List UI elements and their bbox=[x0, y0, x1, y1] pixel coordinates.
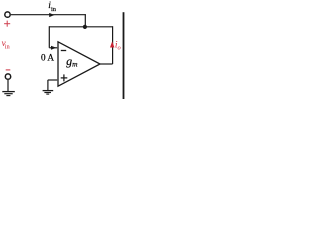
ground (input side) bbox=[2, 91, 15, 93]
polarity plus (red) bbox=[4, 23, 10, 25]
svg-text:io: io bbox=[115, 41, 121, 52]
current arrow 0 A bbox=[51, 46, 56, 50]
wire terminal to ground bbox=[7, 80, 9, 91]
node junction dot bbox=[83, 25, 87, 29]
wire vertical down to inverting input bbox=[48, 26, 50, 48]
input terminal (bottom) bbox=[5, 74, 10, 79]
wire down to ground (op-amp) bbox=[47, 80, 49, 90]
wire inverting input bbox=[49, 47, 57, 49]
svg-text:vin: vin bbox=[2, 38, 11, 51]
wire cropped element right edge bbox=[123, 12, 125, 99]
svg-text:0 A: 0 A bbox=[41, 52, 54, 62]
wire noninverting input bbox=[48, 79, 57, 81]
wire middle horizontal bbox=[49, 26, 112, 28]
polarity minus (red) bbox=[6, 69, 11, 71]
wire output vertical up bbox=[112, 26, 114, 64]
op-amp U1 bbox=[58, 42, 100, 86]
wire output horizontal bbox=[100, 63, 113, 65]
wire top horizontal bbox=[11, 14, 86, 16]
current arrow i_in bbox=[49, 13, 54, 17]
op-amp minus mark bbox=[61, 50, 66, 52]
ground (op-amp side) bbox=[43, 90, 54, 92]
wire vertical from top wire to junction bbox=[84, 14, 86, 27]
current arrow i_o (red) bbox=[110, 41, 114, 47]
input terminal (top) bbox=[5, 12, 10, 17]
op-amp plus mark bbox=[61, 77, 68, 79]
svg-text:iin: iin bbox=[48, 1, 57, 13]
